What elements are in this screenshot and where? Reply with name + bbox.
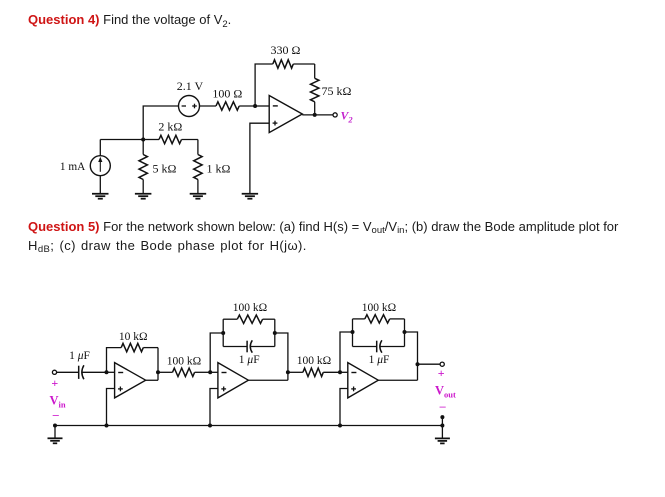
node: op3 output dot [416, 362, 420, 366]
wire: fb1 right vertical down to output [157, 348, 159, 381]
wire op2 + input down to rail [210, 389, 218, 426]
ground under op-amp + input [242, 193, 258, 195]
resistor R 5 kOhm [142, 140, 144, 155]
fb3 left junction dot [351, 330, 355, 334]
svg-text:1 μF: 1 μF [239, 354, 260, 366]
wire op1 apex out [146, 379, 158, 381]
ground under current source [92, 193, 109, 195]
ground symbol right [435, 437, 450, 439]
svg-text:100 kΩ: 100 kΩ [297, 355, 331, 367]
wire: 1mA source top to node A (Q4) [100, 139, 143, 141]
feedback 3 left vertical + stub [340, 332, 353, 372]
node 1 dot (op1 inverting input) [105, 370, 109, 374]
ground under 5k [135, 193, 152, 195]
op-amp U1 [269, 96, 302, 133]
svg-text:5 kΩ: 5 kΩ [153, 161, 177, 175]
resistor R 1 kOhm [197, 140, 199, 155]
terminal Vout (open circle) [440, 362, 444, 366]
resistor R 100 kOhm (op2 feedback) [223, 318, 237, 320]
fb2 loop left vertical [222, 319, 224, 346]
ground rail (bottom) [55, 425, 442, 427]
wire: op-amp output [302, 114, 333, 116]
heading Question 4 [28, 10, 231, 29]
svg-text:330 Ω: 330 Ω [271, 43, 301, 57]
Vout minus terminal stub and dot [441, 417, 443, 425]
capacitor C 1uF (op3 feedback) [353, 346, 377, 348]
node 3 dot (op3 inverting input) [338, 370, 342, 374]
output node dot [313, 113, 317, 117]
op-amp A3 [348, 363, 379, 398]
resistor R 100 kOhm (op3 feedback) [353, 318, 365, 320]
resistor R 2 kOhm (horizontal) [143, 139, 159, 141]
wire op1 + input down to rail [107, 389, 115, 426]
feedback loop 1: left vertical and top [107, 348, 122, 373]
resistor R 75 kOhm [311, 78, 319, 102]
wire input to C1 [57, 371, 79, 373]
svg-text:75 kΩ: 75 kΩ [322, 84, 352, 98]
wire op3 apex out [378, 379, 417, 381]
feedback 2 left vertical + stub [210, 333, 223, 372]
feedback wire up and across (330 loop left/top) [255, 64, 273, 106]
wire node B to op-amp inverting input [255, 105, 269, 107]
fb3 right junction dot [403, 330, 407, 334]
wire op2 apex out [248, 379, 288, 381]
node B junction dot (inverting input node) [253, 104, 257, 108]
wire output to terminal [418, 363, 441, 365]
fb2 right junction dot [273, 331, 277, 335]
node A junction dot [141, 138, 145, 142]
fb2 left junction dot [221, 331, 225, 335]
right ground stem [441, 426, 443, 439]
resistor R 100 Ohm [200, 105, 217, 107]
svg-text:2.1 V: 2.1 V [177, 79, 204, 93]
op-amp A2 [218, 363, 249, 398]
svg-text:1 mA: 1 mA [60, 161, 86, 173]
svg-text:1 μF: 1 μF [69, 350, 90, 362]
fb3 loop right vertical [404, 319, 406, 347]
svg-text:100 Ω: 100 Ω [212, 87, 242, 101]
wire: feedback right vertical [314, 64, 316, 78]
fb2 right stub and main right vertical [275, 333, 288, 380]
wire op3 + input down to rail [340, 389, 348, 426]
fb3 loop left vertical [352, 319, 354, 347]
fb2 loop right vertical [274, 319, 276, 346]
wire node3 to op3 [340, 371, 348, 373]
resistor R 100 kOhm (stage1-2) [158, 371, 173, 373]
current source I1 1 mA [99, 140, 101, 156]
ground under 1k [190, 193, 207, 195]
voltage source V 2.1V [179, 96, 200, 117]
heading Question 5 [28, 217, 618, 255]
svg-text:100 kΩ: 100 kΩ [362, 302, 396, 314]
wire node2 to op2 [210, 371, 218, 373]
capacitor C1 1uF (series input) [78, 366, 80, 379]
svg-text:–: – [439, 399, 447, 413]
svg-text:+: + [438, 366, 445, 380]
resistor R 100 kOhm (stage2-3) [288, 371, 303, 373]
left ground stem [54, 426, 56, 439]
svg-text:10 kΩ: 10 kΩ [119, 331, 148, 343]
node 2 dot (op2 inverting input) [208, 370, 212, 374]
terminal V2 (open circle) [333, 113, 337, 117]
capacitor C 1uF (op2 feedback) [223, 346, 247, 348]
svg-text:2 kΩ: 2 kΩ [158, 120, 182, 134]
rail junction dots [53, 424, 57, 428]
node: op2 output dot [286, 370, 290, 374]
fb3 right stub and main right vertical [405, 332, 418, 380]
resistor R 330 Ohm (feedback) [273, 60, 294, 68]
wire node1 to op1 [107, 371, 115, 373]
svg-text:100 kΩ: 100 kΩ [167, 355, 201, 367]
svg-text:–: – [52, 407, 60, 421]
svg-text:+: + [51, 376, 58, 390]
svg-text:1 μF: 1 μF [369, 354, 390, 366]
svg-text:Vout: Vout [435, 384, 456, 400]
svg-text:100 kΩ: 100 kΩ [233, 302, 267, 314]
svg-text:V2: V2 [341, 108, 354, 124]
ground symbol left [48, 437, 63, 439]
wire: node A up to voltage source level [143, 106, 178, 140]
terminal Vin (open circle) [52, 370, 56, 374]
node: op1 output dot [156, 370, 160, 374]
wire: op-amp + input to ground [250, 123, 269, 194]
op-amp A1 [115, 363, 146, 398]
resistor R 10 kOhm (op1 feedback) [121, 343, 143, 351]
svg-text:1 kΩ: 1 kΩ [207, 161, 231, 175]
